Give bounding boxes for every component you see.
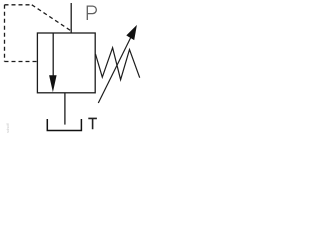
pilot line dashed diagonal <box>32 5 71 31</box>
svg-text:sdsdf: sdsdf <box>5 123 10 133</box>
pilot line dashed bottom horizontal <box>5 61 38 63</box>
flow path arrowhead <box>49 75 57 92</box>
valve body envelope (square) <box>37 33 95 93</box>
spring (zigzag) <box>96 48 140 80</box>
adjustment arrow shaft <box>98 37 131 103</box>
pilot line dashed top horizontal <box>5 4 32 6</box>
flow path arrow shaft <box>52 33 54 77</box>
port P line <box>70 3 72 33</box>
adjustment arrowhead <box>126 25 137 40</box>
tank symbol <box>47 119 81 131</box>
pilot line dashed vertical <box>4 5 6 62</box>
label P <box>87 6 96 20</box>
label T <box>88 118 97 129</box>
port T line <box>64 93 66 125</box>
